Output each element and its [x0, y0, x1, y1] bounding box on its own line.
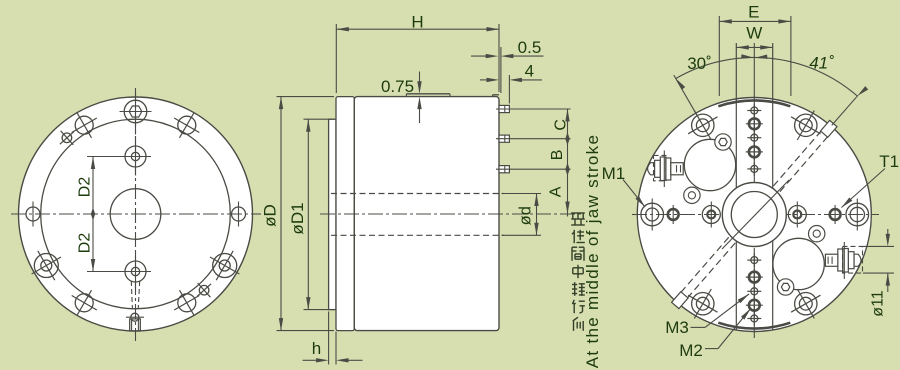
- port nipple 2: [499, 135, 509, 142]
- side view hidden bore lines: [331, 193, 504, 195]
- left view horizontal centerline: [11, 213, 261, 215]
- right vertical slot line left: [735, 43, 737, 330]
- dimension D2 line: [92, 157, 94, 272]
- right center bore inner: [731, 192, 777, 238]
- svg-text:T1: T1: [879, 152, 899, 171]
- svg-text:øD1: øD1: [288, 202, 307, 234]
- svg-text:4: 4: [525, 62, 534, 81]
- right tapped hole 150deg: [791, 289, 820, 318]
- column small hole y137.7: [747, 131, 761, 145]
- cam hex satellite upper: [715, 134, 731, 150]
- left upper-left tapped hole 30deg: [72, 113, 97, 138]
- dimension oD line: [280, 97, 282, 331]
- dimension 0.5 second extension: [500, 47, 502, 93]
- left bottom drive key: [130, 319, 141, 331]
- 41deg center axis line: [722, 180, 789, 249]
- side view centerline: [320, 213, 583, 215]
- leader M3: [691, 326, 706, 328]
- svg-text:M1: M1: [602, 164, 626, 183]
- port nipple 3: [499, 166, 509, 173]
- svg-text:At the middle of jaw stroke: At the middle of jaw stroke: [583, 134, 602, 368]
- cam circle lower-right: [773, 238, 824, 289]
- left upper D2 hole: [120, 138, 151, 176]
- left bottom small tapped hole: [126, 313, 144, 321]
- column bold hole M2 y277.1: [746, 269, 763, 286]
- bold tapped hole right T1: [830, 205, 841, 224]
- left small tapped hole 42deg: [60, 131, 74, 145]
- dimension o11 extension lines: [863, 245, 894, 247]
- dimension W line: [736, 46, 772, 48]
- right top jaw guide band: [718, 100, 790, 106]
- right center bore outer: [722, 183, 786, 247]
- column small hole y260.1: [747, 253, 761, 267]
- leader M2: [705, 348, 718, 350]
- pin hole left: [702, 202, 720, 228]
- left view inner rim circle: [41, 119, 231, 309]
- right vertical centerline: [753, 43, 755, 181]
- 41deg plug lower-left: [672, 292, 689, 309]
- dimension E extension lines: [718, 16, 720, 96]
- radial line 330deg: [674, 75, 696, 112]
- column bold hole M2 y151.9: [746, 143, 763, 160]
- column bold hole M2 y305.2: [746, 297, 763, 314]
- port nipple 2 center extension: [496, 138, 571, 140]
- cam circle satellite lower: [684, 187, 700, 203]
- svg-text:E: E: [748, 3, 759, 22]
- side view hub slice: [329, 119, 336, 309]
- side view right corner step: [493, 94, 500, 96]
- side view main body: [354, 97, 499, 331]
- dimension E line: [719, 20, 791, 22]
- dimension 4 line: [480, 79, 488, 81]
- right tapped hole 330deg: [688, 111, 717, 140]
- left top hex-socket bolt hole: [120, 93, 152, 135]
- left hidden keyway dashes: [131, 281, 132, 309]
- left small tapped hole 138deg: [197, 283, 211, 297]
- left view outer circle: [19, 97, 253, 331]
- svg-text:B: B: [549, 150, 566, 161]
- dimension h extension lines: [328, 312, 330, 365]
- cam hex satellite lower2: [777, 279, 793, 295]
- right tapped hole 210deg: [688, 289, 717, 318]
- dimension od extension lines: [502, 193, 542, 195]
- dimension 0.75 arrows: [419, 72, 421, 84]
- svg-text:ød: ød: [517, 206, 535, 225]
- pin hole right: [788, 202, 806, 228]
- right bottom jaw guide band: [718, 323, 790, 329]
- svg-text:h: h: [312, 339, 321, 358]
- svg-text:30˚: 30˚: [687, 54, 712, 73]
- svg-text:0.75: 0.75: [381, 77, 414, 96]
- dimension oD1 extension lines: [304, 118, 335, 120]
- left lower-right tapped hole: [174, 290, 199, 315]
- svg-text:D2: D2: [77, 233, 94, 254]
- left lower D2 hole: [120, 253, 151, 291]
- dimension D2 extension lines: [87, 156, 124, 158]
- svg-text:41˚: 41˚: [809, 54, 834, 73]
- right horizontal centerline: [632, 214, 879, 216]
- leader T1: [842, 169, 886, 208]
- cam circle satellite upper2: [809, 226, 825, 242]
- leader M1: [623, 180, 645, 208]
- port nipple 3 center extension: [496, 168, 571, 170]
- svg-text:M2: M2: [679, 341, 703, 360]
- port nipple 1: [499, 105, 509, 112]
- dimension oD1 line: [307, 119, 309, 309]
- note chinese jaw stroke: [571, 213, 585, 331]
- svg-text:ø11: ø11: [869, 290, 886, 316]
- right tapped hole 30deg: [791, 111, 820, 140]
- dimension ABC line: [567, 109, 569, 217]
- dimension 4 extension tick: [508, 75, 510, 104]
- column bold hole M2 y123.8: [746, 115, 763, 132]
- angle dimension arc: [676, 57, 858, 96]
- grease fitting left: [648, 151, 684, 188]
- dimension 0.5 line: [471, 55, 488, 57]
- left 3 o'clock hole: [232, 202, 246, 227]
- left lower-left tapped hole: [72, 290, 97, 315]
- grease fitting right: [825, 242, 862, 279]
- left counterbored hole 240deg: [32, 251, 61, 280]
- dimension od line: [536, 194, 538, 236]
- 41deg hidden passage dashed lines: [773, 124, 827, 186]
- right view outer circle: [637, 98, 871, 332]
- 41deg plug upper-right: [821, 120, 838, 137]
- column small hole y291.3: [747, 284, 761, 298]
- left view vertical centerline: [135, 88, 137, 341]
- svg-text:A: A: [548, 186, 565, 197]
- left view center bore: [110, 189, 161, 240]
- dimension H extension lines: [335, 24, 337, 93]
- svg-text:D2: D2: [77, 177, 94, 198]
- column small hole y168.9: [747, 162, 761, 176]
- dimension o11 line: [887, 229, 889, 236]
- left 9 o'clock hole: [26, 202, 40, 227]
- hole T1 counterbore right: [846, 199, 869, 231]
- svg-text:0.5: 0.5: [518, 38, 542, 57]
- column small hole y110.5: [747, 104, 761, 118]
- right vertical slot line right: [772, 43, 774, 330]
- cam circle upper-left: [684, 139, 735, 190]
- hole M1: [641, 199, 664, 231]
- svg-text:W: W: [746, 24, 762, 43]
- column small hole y318.5: [747, 312, 761, 326]
- svg-text:M3: M3: [665, 318, 689, 337]
- dimension h line: [303, 359, 318, 361]
- dimension H line: [336, 28, 499, 30]
- side view flange slice: [336, 97, 354, 331]
- bold tapped hole left: [668, 205, 679, 224]
- svg-text:øD: øD: [261, 204, 280, 227]
- dimension oD extension lines: [277, 96, 335, 98]
- radial line 41deg: [832, 95, 858, 125]
- svg-text:H: H: [411, 13, 423, 32]
- svg-text:C: C: [552, 119, 569, 131]
- left upper-right tapped hole 30deg: [174, 113, 199, 138]
- left counterbored hole 120deg: [210, 251, 239, 280]
- side view 0.75 raised strip: [406, 93, 450, 95]
- port nipple 1 center extension: [496, 108, 571, 110]
